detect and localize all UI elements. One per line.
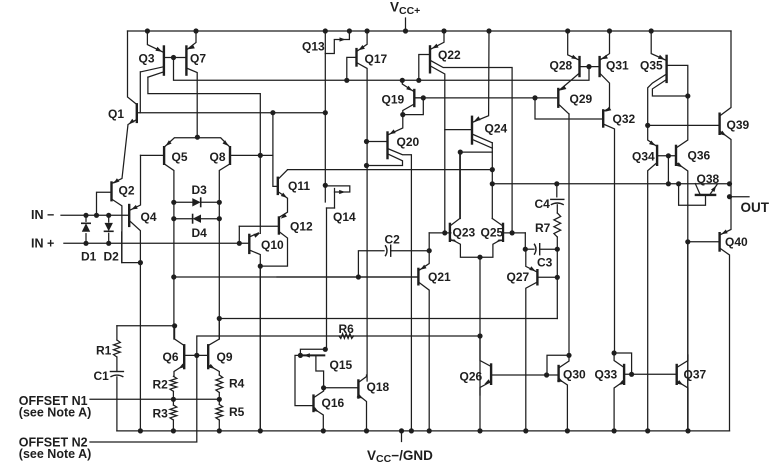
svg-text:Q40: Q40: [725, 235, 748, 249]
svg-text:Q22: Q22: [438, 48, 461, 62]
svg-text:Q33: Q33: [595, 367, 618, 381]
svg-text:C2: C2: [385, 233, 401, 247]
svg-text:D2: D2: [104, 250, 120, 264]
svg-text:Q28: Q28: [550, 58, 573, 72]
svg-text:Q20: Q20: [397, 135, 420, 149]
svg-text:Q34: Q34: [632, 149, 655, 163]
svg-text:R2: R2: [153, 378, 169, 392]
svg-text:Q3: Q3: [139, 51, 155, 65]
svg-text:Q38: Q38: [697, 172, 720, 186]
svg-text:R3: R3: [153, 407, 169, 421]
svg-text:Q2: Q2: [119, 183, 135, 197]
svg-text:C3: C3: [537, 256, 553, 270]
svg-text:Q16: Q16: [322, 396, 345, 410]
svg-text:Q14: Q14: [333, 210, 356, 224]
svg-text:IN −: IN −: [31, 208, 54, 222]
svg-text:R4: R4: [229, 377, 245, 391]
svg-text:Q11: Q11: [288, 179, 310, 193]
svg-text:Q10: Q10: [261, 238, 284, 252]
svg-text:OUT: OUT: [741, 200, 770, 215]
svg-text:R1: R1: [96, 344, 112, 358]
svg-text:Q19: Q19: [382, 92, 405, 106]
svg-text:Q9: Q9: [217, 350, 233, 364]
svg-text:Q21: Q21: [428, 270, 451, 284]
svg-text:Q35: Q35: [640, 58, 663, 72]
svg-text:Q1: Q1: [108, 107, 124, 121]
svg-text:(see Note A): (see Note A): [19, 406, 91, 420]
svg-text:C1: C1: [94, 369, 110, 383]
svg-text:Q17: Q17: [365, 52, 388, 66]
svg-text:Q23: Q23: [453, 225, 476, 239]
svg-text:Q13: Q13: [302, 39, 325, 53]
svg-text:Q30: Q30: [563, 367, 586, 381]
svg-text:IN +: IN +: [31, 237, 54, 251]
svg-text:R6: R6: [339, 322, 355, 336]
svg-text:Q5: Q5: [172, 150, 188, 164]
svg-text:Q24: Q24: [485, 121, 508, 135]
svg-text:Q4: Q4: [141, 210, 157, 224]
svg-text:Q18: Q18: [367, 380, 390, 394]
svg-text:D3: D3: [192, 183, 208, 197]
svg-text:Q36: Q36: [688, 148, 711, 162]
svg-text:D4: D4: [192, 226, 208, 240]
svg-text:Q25: Q25: [481, 225, 504, 239]
svg-text:Q7: Q7: [190, 51, 206, 65]
svg-text:Q29: Q29: [570, 92, 593, 106]
svg-text:Q27: Q27: [507, 270, 530, 284]
svg-text:Q32: Q32: [613, 112, 636, 126]
svg-text:R5: R5: [229, 405, 245, 419]
svg-text:Q26: Q26: [460, 369, 483, 383]
svg-text:Q39: Q39: [727, 118, 750, 132]
svg-text:Q15: Q15: [330, 358, 353, 372]
svg-text:D1: D1: [81, 250, 97, 264]
svg-text:Q37: Q37: [684, 367, 707, 381]
svg-text:Q8: Q8: [210, 150, 226, 164]
svg-text:Q6: Q6: [163, 350, 179, 364]
svg-text:Q31: Q31: [606, 58, 629, 72]
svg-text:Q12: Q12: [290, 219, 313, 233]
svg-text:R7: R7: [535, 221, 551, 235]
svg-text:(see Note A): (see Note A): [19, 447, 91, 461]
svg-text:C4: C4: [535, 197, 551, 211]
